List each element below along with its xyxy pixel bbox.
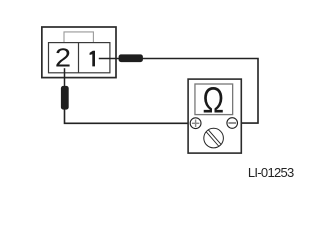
svg-text:Ω: Ω [202, 79, 224, 120]
plus terminal [190, 118, 201, 129]
svg-text:LI-01253: LI-01253 [248, 165, 294, 180]
probe tip P1 [119, 54, 143, 62]
wire pin2 to ohmmeter plus [65, 109, 191, 123]
probe tip P2 [61, 86, 69, 110]
connector lock tab [64, 32, 93, 43]
svg-text:2: 2 [55, 43, 71, 72]
connector J1 outer housing [42, 27, 116, 78]
wire pin2 stub [64, 68, 66, 87]
pin label 1 [90, 51, 95, 67]
connector cavity box [49, 43, 110, 73]
cavity divider [78, 43, 80, 73]
selector dial [204, 128, 224, 148]
minus terminal [227, 118, 238, 129]
ohmmeter body [188, 79, 241, 153]
ohmmeter display bezel [195, 84, 233, 115]
wire pin1 to ohmmeter minus [99, 59, 258, 124]
